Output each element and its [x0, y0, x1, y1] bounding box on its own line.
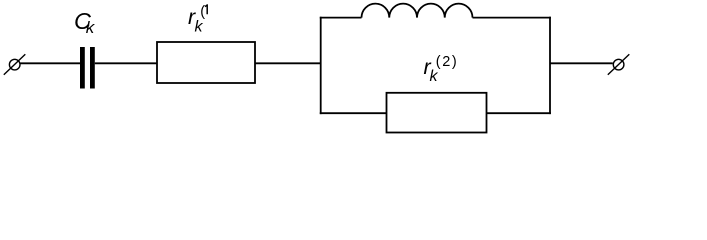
svg-text:(: (: [200, 4, 205, 20]
svg-text:(2): (2): [436, 54, 459, 70]
svg-text:k: k: [86, 18, 96, 37]
svg-text:k: k: [195, 18, 204, 35]
svg-text:k: k: [430, 68, 439, 85]
